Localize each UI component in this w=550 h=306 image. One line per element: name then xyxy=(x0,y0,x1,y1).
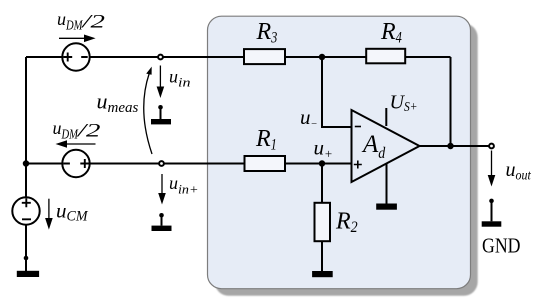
ground under R2 xyxy=(312,271,333,277)
resistor R4 xyxy=(366,49,405,64)
wire: R4 right side down to output xyxy=(450,57,452,146)
svg-text:uin: uin xyxy=(169,67,191,90)
wire: u+ node down to R2 xyxy=(321,164,323,203)
ground under uCM xyxy=(17,256,39,277)
wire: inverting input from R3/R4 junction xyxy=(322,57,352,127)
amplifier block background box xyxy=(208,16,471,289)
amplifier block shadow xyxy=(215,23,478,296)
ground under op-amp xyxy=(376,204,397,210)
arrow uin xyxy=(157,66,165,99)
wire: lower horizontal rail xyxy=(26,163,352,165)
wire: op-amp output to terminal xyxy=(420,145,490,147)
junction dot output xyxy=(447,143,454,150)
svg-text:uin+: uin+ xyxy=(169,173,199,197)
node uin terminal xyxy=(158,55,163,60)
op-amp Ad xyxy=(352,110,420,182)
junction dot R3/R4 xyxy=(319,54,326,61)
svg-text:uCM: uCM xyxy=(56,199,89,225)
arrow umeas (curved) xyxy=(144,67,152,154)
ground under uout xyxy=(482,199,502,227)
arrow uDM/2 lower xyxy=(56,140,96,148)
wire: top horizontal rail xyxy=(26,56,451,58)
wire: u_CM source to ground xyxy=(25,225,27,272)
resistor R1 xyxy=(245,156,286,171)
wire: R2 to ground xyxy=(321,242,323,272)
source uDM/2 lower xyxy=(62,150,89,177)
node uin+ terminal xyxy=(159,161,164,166)
wire: op-amp supply stub US+ xyxy=(385,108,387,126)
source uCM xyxy=(12,197,39,224)
ground under uin+ xyxy=(152,213,172,231)
node uout terminal xyxy=(489,144,494,149)
resistor R3 xyxy=(244,49,285,64)
arrow uCM xyxy=(45,199,53,230)
source uDM/2 top xyxy=(62,43,89,70)
svg-text:uDM/2: uDM/2 xyxy=(53,118,102,143)
svg-text:uDM/2: uDM/2 xyxy=(57,9,106,34)
wire: op-amp ground stem xyxy=(386,164,388,204)
svg-text:umeas: umeas xyxy=(97,89,139,116)
ground under uin xyxy=(151,105,171,124)
arrow uin+ xyxy=(158,174,166,205)
arrow uout xyxy=(488,151,496,187)
resistor R2 xyxy=(315,203,331,241)
junction dot left rail xyxy=(23,160,30,167)
wire: left vertical rail xyxy=(25,57,27,198)
svg-text:GND: GND xyxy=(482,233,521,257)
junction dot u+ xyxy=(319,160,326,167)
svg-text:uout: uout xyxy=(506,159,532,184)
arrow uDM/2 top xyxy=(59,35,96,43)
